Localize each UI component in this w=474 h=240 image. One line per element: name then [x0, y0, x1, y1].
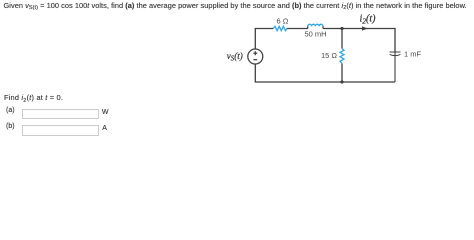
svg-text:i2(t): i2(t) — [360, 14, 377, 26]
problem statement line — [4, 1, 467, 10]
inductor L1 50 mH — [308, 24, 323, 28]
svg-text:50 mH: 50 mH — [305, 30, 327, 39]
resistor R1 6Ω — [273, 26, 287, 30]
current arrow i2 — [362, 26, 368, 30]
svg-text:6 Ω: 6 Ω — [277, 16, 289, 25]
answer row (a) — [6, 107, 15, 114]
wire inductor to node A — [323, 28, 342, 30]
node B (bottom junction dot) — [340, 80, 343, 83]
svg-text:15 Ω: 15 Ω — [321, 51, 337, 60]
voltage source VS — [248, 49, 263, 64]
resistor R2 15Ω — [340, 49, 344, 64]
wire through capacitor to bottom — [394, 52, 396, 82]
capacitor C1 1 mF — [390, 52, 401, 56]
middle branch wire upper — [341, 29, 343, 49]
wire top-left segment — [255, 29, 273, 50]
wire between resistor and inductor — [287, 28, 308, 30]
svg-text:vS(t): vS(t) — [227, 51, 243, 63]
circuit schematic SVG — [0, 0, 474, 146]
node A (top junction dot) — [340, 27, 343, 30]
find line — [4, 93, 63, 102]
svg-text:1 mF: 1 mF — [404, 49, 422, 58]
wire node A to top-right corner — [342, 29, 395, 53]
middle branch wire lower — [341, 64, 343, 83]
answer row (b) — [6, 123, 15, 130]
bottom wire — [255, 64, 395, 82]
